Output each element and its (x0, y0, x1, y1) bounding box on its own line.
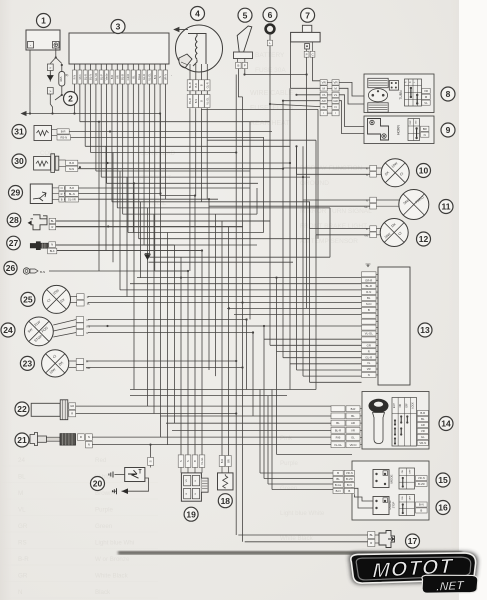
wire H36 y=326.0 (88, 325, 362, 327)
svg-text:GR-R: GR-R (126, 74, 130, 81)
box 13 circle (418, 323, 432, 337)
wire H7 y=152.5 (113, 152, 236, 154)
svg-text:MIRROR TURN SIGNAL: MIRROR TURN SIGNAL (300, 208, 372, 215)
lamp 12 wires (310, 228, 370, 230)
wire H41 y=357.7 (283, 357, 362, 359)
svg-text:M: M (18, 490, 23, 497)
ignition pin columns (331, 406, 345, 412)
wire H57 y=454.4 (277, 453, 353, 455)
lamp 11 connector (370, 197, 377, 203)
tail/stop lamp 24 (1, 323, 15, 337)
licence lamp 25 (21, 292, 35, 306)
connector 19 body (181, 473, 201, 501)
wire H8 y=163.0 (78, 162, 290, 164)
svg-text:VR: VR (421, 429, 425, 433)
ignition table (392, 398, 417, 447)
spark plug wires (92, 436, 331, 438)
wire ECU pin 9 drop (116, 84, 118, 208)
wire generator lead 4 (206, 108, 208, 199)
wire H51 y=423.2 (166, 422, 331, 424)
wire V35 x=296.5 (296, 146, 298, 370)
battery 1 (26, 30, 60, 50)
svg-text:NO: NO (400, 404, 402, 408)
handlebar connector columns (320, 80, 327, 85)
svg-text:R-B: R-B (336, 436, 341, 440)
svg-text:OFF: OFF (410, 119, 412, 124)
wire H27 y=271.0 (49, 270, 188, 272)
svg-text:AR: AR (115, 75, 119, 79)
svg-text:Purple: Purple (95, 507, 113, 514)
horn 31 (12, 125, 26, 139)
wire H39 y=345.3 (270, 344, 362, 346)
wire H31 y=296.5 (88, 296, 362, 298)
ignition switch box 14 (362, 392, 429, 450)
svg-text:GR: GR (18, 523, 28, 530)
svg-text:AR: AR (421, 423, 425, 427)
svg-text:B: B (368, 308, 370, 312)
wire generator lead 1 (189, 108, 191, 271)
wire H53 y=473.0 (260, 472, 333, 474)
svg-text:24: 24 (3, 325, 13, 335)
flasher ground left (115, 474, 125, 476)
svg-text:29: 29 (11, 188, 21, 198)
generator flyback arrow (177, 29, 189, 31)
wire H59 y=541.8 (245, 541, 368, 543)
wire ECU pin 5 drop (95, 84, 97, 171)
svg-text:Light blue White: Light blue White (280, 510, 325, 517)
svg-text:B: B (237, 64, 239, 68)
svg-text:Rosa: Rosa (137, 73, 141, 80)
wire V2 x=113 (112, 153, 114, 263)
svg-text:STOP: STOP (392, 501, 395, 508)
connector 17 circle (406, 534, 420, 548)
mode/stop pin columns (333, 470, 343, 475)
wire ECU pin 11 drop (127, 84, 129, 233)
svg-text:GL-VR: GL-VR (94, 73, 98, 81)
svg-text:BL: BL (421, 417, 425, 421)
svg-text:VR-N: VR-N (418, 476, 425, 480)
engine stop table (399, 495, 415, 516)
wire H49 y=395.6 (130, 395, 287, 397)
svg-text:B: B (200, 84, 204, 86)
svg-text:VL-GL: VL-GL (200, 457, 204, 465)
lamp 12 connector (370, 226, 377, 232)
wire V6 x=140.5 (140, 202, 142, 278)
svg-text:22: 22 (17, 404, 27, 414)
wire V29 x=268 (267, 396, 269, 484)
wire ECU pin 6 drop (100, 84, 102, 177)
svg-text:GL-VR: GL-VR (68, 198, 76, 202)
svg-text:R: R (51, 225, 53, 229)
wire V40 x=330 (329, 208, 331, 257)
svg-text:Black: Black (95, 589, 111, 596)
svg-text:B-N: B-N (347, 483, 352, 487)
svg-text:GR: GR (70, 404, 74, 408)
svg-text:GR: GR (333, 99, 337, 103)
svg-text:6: 6 (268, 10, 273, 20)
svg-text:BL-R: BL-R (83, 74, 87, 80)
wire V27 x=264 (263, 326, 265, 479)
wire ECU pin 12 drop (132, 84, 134, 233)
turn switch box 8 (364, 74, 434, 113)
wire V22 x=246.5 (246, 320, 248, 390)
wire V25 x=257 (256, 188, 258, 214)
svg-text:GL: GL (364, 205, 368, 209)
fuse link box a (47, 64, 53, 71)
svg-text:R: R (405, 81, 408, 83)
svg-text:VR-N: VR-N (346, 471, 353, 475)
wire V1 x=106 (105, 146, 107, 250)
diode 26 (4, 261, 17, 274)
svg-text:Pink: Pink (280, 435, 293, 442)
svg-text:VR: VR (322, 81, 326, 85)
svg-text:BL-N: BL-N (89, 74, 93, 80)
indicator 6 eyelet (266, 25, 275, 34)
wire H54 y=478.5 (264, 478, 333, 480)
svg-text:B-R: B-R (18, 556, 29, 563)
svg-text:GR: GR (367, 343, 371, 347)
dash connector box 13 (378, 267, 410, 385)
lamp 10 (left front turn) (381, 159, 409, 187)
wire V15 x=202 (201, 251, 203, 455)
svg-text:11: 11 (442, 202, 451, 212)
mode table labels (416, 476, 428, 481)
generator connector row2 (187, 95, 193, 108)
svg-text:N: N (179, 460, 183, 462)
svg-text:12: 12 (419, 234, 429, 244)
wire V31 x=270 (269, 104, 271, 345)
svg-text:10: 10 (419, 166, 429, 176)
svg-text:Green: Green (280, 485, 298, 492)
wire H32 y=302.5 (88, 302, 362, 304)
wire ECU pin 1 drop (74, 84, 76, 114)
svg-text:14: 14 (441, 419, 451, 429)
svg-text:CONN LEAD: CONN LEAD (140, 151, 176, 157)
wire H44 y=367.5 (86, 367, 243, 369)
svg-text:VR: VR (367, 367, 371, 371)
svg-text:FUSE 30A: FUSE 30A (255, 67, 286, 74)
switch 5 blade (237, 26, 252, 52)
svg-text:R: R (80, 435, 82, 439)
wire H13 y=188.0 (64, 187, 250, 189)
svg-text:N: N (366, 173, 368, 177)
svg-text:9: 9 (446, 125, 451, 135)
svg-text:P: P (244, 64, 246, 68)
sensor 22 wires (76, 405, 331, 407)
turn switch hatched contact bottom (368, 103, 388, 112)
svg-text:BL: BL (336, 421, 340, 425)
switch 7 plunger (305, 44, 310, 50)
svg-text:B: B (61, 198, 63, 202)
sensor 22 body (31, 403, 60, 416)
svg-text:16: 16 (438, 503, 448, 513)
mode table (399, 468, 415, 489)
wire H56 y=489.5 (272, 489, 333, 491)
svg-text:B-R: B-R (69, 161, 74, 165)
wire generator lead 3 (200, 108, 202, 202)
wire V7 x=147.5 (147, 208, 149, 406)
wire ECU pin 15 drop (148, 84, 150, 257)
wire H34 y=314.5 (234, 314, 362, 316)
svg-text:BL-B: BL-B (121, 74, 125, 80)
wire H43 y=363.8 (290, 363, 362, 365)
svg-text:BL-P: BL-P (99, 74, 103, 80)
svg-text:VG: VG (186, 479, 188, 482)
svg-text:MODE: MODE (389, 475, 393, 484)
svg-text:RS: RS (18, 540, 27, 547)
indicator 6 pin (267, 40, 272, 46)
wire V11 x=174.5 (174, 245, 176, 423)
svg-text:8: 8 (446, 89, 451, 99)
generator coil (188, 34, 206, 65)
svg-text:N: N (158, 76, 162, 78)
lamp 10 circle (417, 164, 431, 178)
connector feed wires (291, 87, 321, 89)
svg-text:>: > (49, 90, 51, 94)
svg-text:GL-R: GL-R (142, 74, 146, 80)
svg-text:R-N: R-N (73, 75, 77, 80)
wire V34 x=290 (289, 88, 291, 389)
motot.net watermark logo (348, 545, 479, 600)
svg-text:(II): (II) (65, 73, 69, 77)
svg-text:N: N (186, 460, 190, 462)
wire H5 y=137.5 (71, 137, 265, 139)
flasher lower loop + ground (122, 478, 149, 491)
svg-text:VN: VN (364, 233, 368, 237)
svg-text:White Black: White Black (280, 535, 314, 542)
svg-text:B: B (420, 509, 422, 513)
svg-text:.NET: .NET (436, 578, 466, 594)
svg-text:21: 21 (17, 435, 27, 445)
junction dots (29, 112, 31, 114)
svg-text:BL: BL (370, 533, 374, 537)
svg-text:VL-GL: VL-GL (148, 73, 152, 81)
wire H25 y=257.2 (181, 256, 330, 258)
svg-text:ON: ON (402, 470, 404, 474)
mode feed wires (354, 494, 373, 501)
wire H17 y=207.9 (148, 207, 331, 209)
switch 7 wires (306, 57, 308, 308)
wire H12 y=183.3 (134, 182, 258, 184)
svg-text:VR-N: VR-N (350, 443, 357, 447)
horn switch mech (368, 119, 389, 141)
flasher relay 20 (125, 468, 145, 482)
wire H46 y=376.1 (303, 375, 362, 377)
wire V3 x=120 (119, 171, 121, 290)
ignition table labels (417, 411, 428, 416)
svg-text:Purple: Purple (280, 460, 298, 467)
wire V20 x=236.2 (235, 75, 237, 536)
wire V14 x=195 (194, 196, 196, 455)
svg-text:RS: RS (87, 324, 91, 328)
svg-text:+: + (54, 44, 57, 49)
wire H45 y=370.0 (297, 369, 362, 371)
blocking diode mid-harness (145, 254, 151, 260)
svg-text:YA: YA (322, 93, 326, 97)
wire ECU pin 14 drop (143, 84, 145, 245)
svg-text:N: N (18, 589, 22, 596)
switch 5 circle (238, 8, 252, 22)
wire H10 y=171.0 (120, 170, 250, 172)
svg-text:Verde: Verde (105, 73, 109, 80)
fuse 30A (2) (59, 72, 65, 87)
svg-text:1: 1 (41, 16, 46, 26)
wire V26 x=263.5 (263, 138, 265, 233)
spark plug labels (78, 434, 85, 441)
switch 28 (7, 213, 21, 227)
generator 4 (176, 25, 223, 72)
svg-text:BL-B: BL-B (188, 82, 192, 88)
svg-text:GL: GL (351, 436, 355, 440)
svg-text:GL: GL (421, 435, 425, 439)
wire H22 y=238.7 (168, 238, 310, 240)
svg-text:OFF: OFF (410, 495, 412, 500)
wire H19 y=221.0 (55, 220, 270, 222)
flasher circle 20 (91, 477, 105, 491)
wire H30 y=289.9 (120, 289, 362, 291)
spark plug 21 (15, 433, 29, 447)
svg-text:BR: BR (227, 459, 231, 463)
wire V37 x=309.5 (309, 202, 311, 382)
svg-text:BL-R: BL-R (366, 284, 372, 288)
turn table labels (422, 88, 430, 93)
svg-text:VL-GL: VL-GL (334, 443, 343, 447)
lamp 24 connector (76, 317, 83, 323)
svg-text:N: N (88, 435, 90, 439)
svg-text:25: 25 (23, 295, 33, 305)
svg-text:AR: AR (322, 99, 326, 103)
svg-text:15: 15 (438, 475, 448, 485)
sensor 29 (9, 186, 23, 200)
horn table (408, 119, 420, 141)
svg-text:VL-GL: VL-GL (365, 332, 374, 336)
svg-text:R: R (87, 295, 89, 299)
svg-text:BL: BL (51, 219, 55, 223)
svg-text:BL-B: BL-B (188, 98, 192, 104)
wire H0 y=113.5 (22, 113, 160, 115)
svg-text:Green: Green (95, 523, 113, 530)
svg-text:R: R (87, 331, 89, 335)
switch 5 wires (238, 69, 242, 97)
switch 5 pins (236, 62, 241, 68)
horn circle 9 (441, 123, 455, 137)
svg-text:VR: VR (424, 89, 428, 93)
lamp 11 circle (439, 200, 453, 214)
svg-text:R-N: R-N (366, 290, 371, 294)
svg-text:B-N: B-N (40, 270, 45, 274)
switch 7 circle (301, 8, 315, 22)
svg-text:24: 24 (18, 457, 25, 464)
svg-text:HORN: HORN (397, 125, 401, 135)
wire H55 y=484.0 (268, 483, 333, 485)
wire ECU pin 18 drop (164, 84, 166, 199)
svg-text:B-VR: B-VR (346, 477, 353, 481)
wire H37 y=332.5 (88, 332, 253, 334)
svg-text:13: 13 (420, 325, 430, 335)
wire V39 x=318 (317, 109, 319, 238)
svg-text:BL: BL (87, 301, 91, 305)
svg-text:Red: Red (95, 457, 107, 464)
wire ECU pin 8 drop (111, 84, 113, 202)
battery positive wire to fuses (50, 48, 56, 64)
wire generator lead 2 (195, 108, 197, 195)
wire H33 y=308.4 (227, 307, 362, 309)
wire V13 x=188 (187, 271, 189, 455)
wire H14 y=193.5 (64, 193, 161, 195)
wire H24 y=250.5 (49, 250, 202, 252)
svg-text:VL: VL (424, 101, 428, 105)
wire H18 y=214.1 (154, 213, 257, 215)
svg-text:B-N: B-N (419, 503, 424, 507)
svg-text:B-N: B-N (336, 489, 341, 493)
svg-text:VR-N: VR-N (419, 441, 426, 445)
svg-text:M-N: M-N (366, 302, 371, 306)
connector 27 (7, 236, 21, 250)
ECU circle 3 (111, 20, 125, 34)
svg-text:26: 26 (6, 263, 16, 273)
spark plug 21 body (30, 433, 38, 446)
wire V33 x=283 (282, 101, 284, 358)
wire V23 x=250 (249, 122, 251, 320)
wire H38 y=339.2 (264, 338, 362, 340)
engine stop switch 16 pins (373, 497, 389, 515)
svg-text:B-VR: B-VR (418, 482, 425, 486)
wire V32 x=276.5 (276, 278, 278, 455)
spark plug cap (60, 434, 76, 446)
wire H42 y=361.0 (86, 360, 236, 362)
wire V18 x=222 (221, 221, 223, 456)
wire V8 x=154 (153, 214, 155, 413)
wire H2 y=140.2 (207, 139, 316, 141)
wire H16 y=201.8 (141, 201, 311, 203)
svg-text:B-R: B-R (110, 75, 114, 80)
diode (48, 71, 54, 82)
svg-text:BR: BR (423, 127, 427, 131)
svg-text:20: 20 (93, 479, 103, 489)
svg-text:BL: BL (131, 75, 135, 79)
wire ECU pin 16 drop (154, 84, 156, 271)
lamp 11 wires (303, 199, 370, 201)
box 13 pin labels (362, 272, 377, 277)
svg-text:B: B (337, 471, 339, 475)
wire H47 y=382.3 (310, 381, 362, 383)
wire ECU pin 2 drop (79, 84, 81, 122)
bottom page-edge shadow (118, 551, 462, 555)
connector 17 (368, 532, 375, 539)
svg-text:N: N (409, 81, 412, 83)
wire H28 y=277.6 (137, 277, 362, 279)
lamp 11 (headlamp) (399, 190, 429, 220)
svg-text:7: 7 (305, 10, 310, 20)
svg-text:B-R: B-R (220, 459, 224, 464)
svg-text:DISPLAY FUNCTION: DISPLAY FUNCTION (300, 165, 363, 172)
wire H11 y=177.1 (127, 176, 310, 178)
svg-text:GR-R: GR-R (365, 278, 372, 282)
svg-text:27: 27 (9, 238, 19, 248)
wire V9 x=160.5 (160, 114, 162, 438)
svg-text:B: B (200, 100, 204, 102)
svg-text:28: 28 (9, 215, 19, 225)
wire H20 y=226.5 (55, 226, 243, 228)
svg-text:4: 4 (195, 9, 200, 19)
svg-text:B-N: B-N (194, 99, 198, 104)
svg-text:R: R (71, 412, 73, 416)
svg-text:BL-R: BL-R (335, 428, 341, 432)
lamp 12 (right front turn) (380, 219, 408, 247)
switch 5 base (234, 52, 253, 59)
horn switch box 9 (364, 116, 434, 144)
mode switch 15 pins (373, 470, 389, 488)
